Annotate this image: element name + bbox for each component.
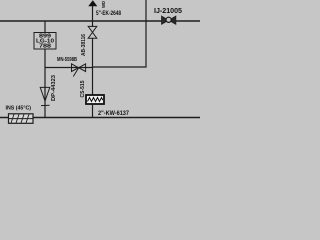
wire: center line B above top line with flow arrow: [88, 0, 97, 21]
wire: left drop leg x=45: [44, 21, 46, 118]
drain funnel on left leg: [40, 87, 50, 105]
svg-text:DP-44323: DP-44323: [51, 75, 57, 101]
insulation spool on bottom line (hatched box): [9, 114, 34, 124]
valve MN-5598B (bowtie): [72, 64, 86, 77]
wire: bottom main pipe line: [0, 117, 200, 119]
svg-text:IJ-21005: IJ-21005: [154, 6, 182, 15]
wire: center line B strainer to bottom line: [92, 104, 94, 118]
svg-text:AB-38116: AB-38116: [81, 34, 87, 56]
svg-text:2"-KW-6137: 2"-KW-6137: [98, 111, 130, 117]
strainer/filter box on line B: [86, 95, 104, 104]
svg-text:WD: WD: [101, 0, 106, 8]
svg-text:MN-5598B: MN-5598B: [57, 57, 77, 63]
svg-text:788: 788: [39, 43, 51, 49]
wire: right riser x=146 from top edge down to branch: [93, 0, 147, 67]
wire: branch line y=67.5 from node A to line B: [45, 67, 93, 69]
instrument box LG-10: [34, 33, 56, 50]
valve AB-38116 (vertical hourglass): [88, 26, 97, 38]
wire: center line B (x=92.5) top line to valve: [92, 21, 94, 27]
valve IJ-21005 (globe valve on top line): [162, 16, 176, 24]
svg-text:INS (45°C): INS (45°C): [6, 105, 32, 111]
wire: top main pipe line: [0, 20, 200, 22]
svg-text:CS-515: CS-515: [80, 80, 86, 97]
svg-text:5"-EK-2648: 5"-EK-2648: [96, 11, 122, 17]
wire: center line B valve to strainer: [92, 38, 94, 95]
